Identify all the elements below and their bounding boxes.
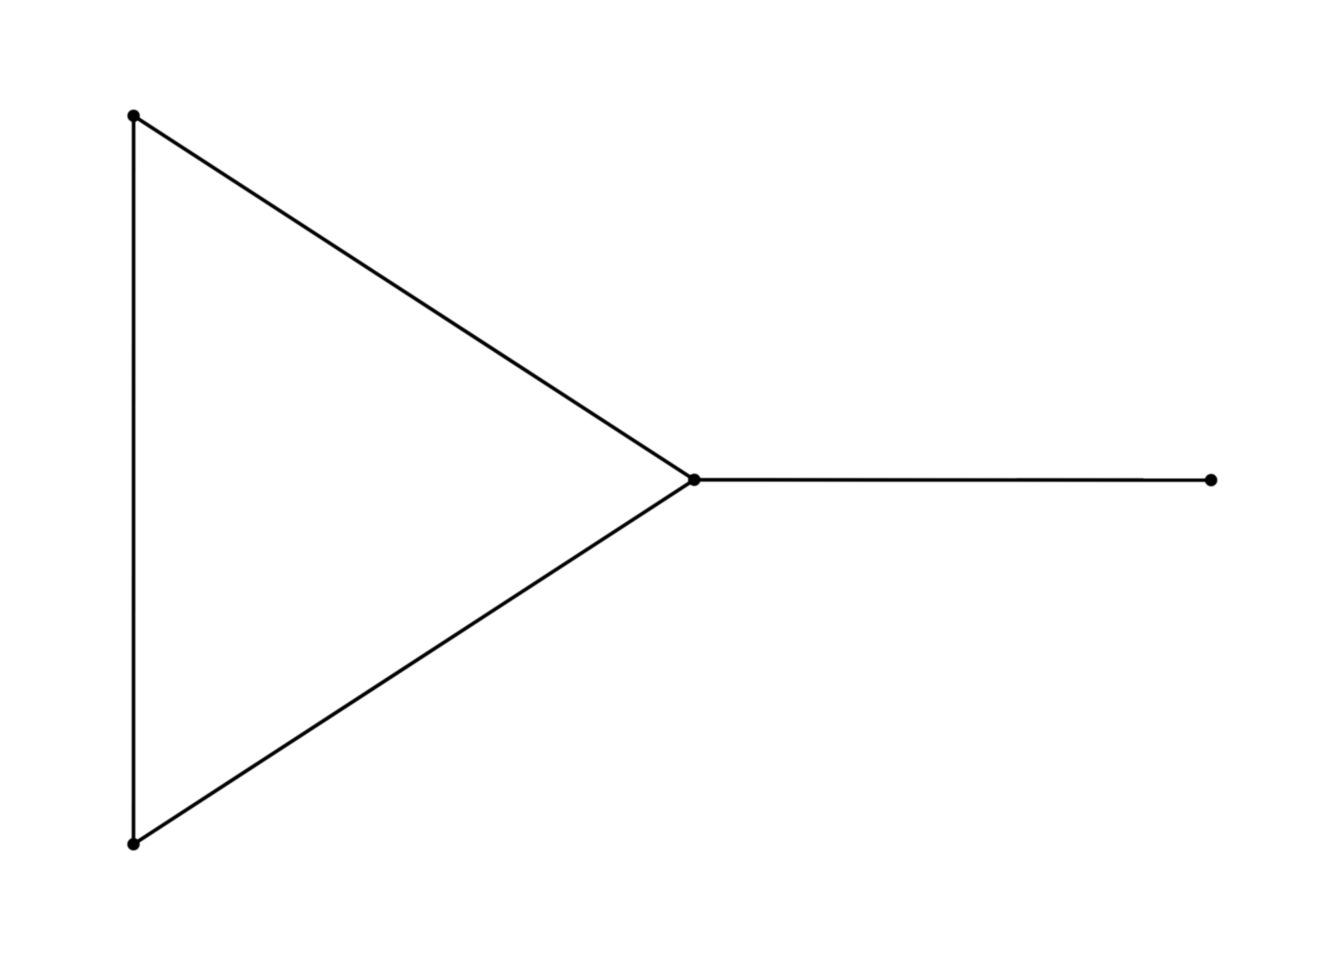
wire edge A-C (upper diagonal side of triangle) [134, 116, 695, 480]
wire edge C-D (horizontal tail) [694, 478, 1211, 482]
node D (right endpoint vertex) [1205, 474, 1217, 486]
wire edge A-B (left vertical side of triangle) [132, 116, 136, 844]
node C (middle junction vertex) [688, 474, 700, 486]
node B (bottom-left vertex) [127, 838, 139, 850]
node A (top-left vertex) [127, 110, 139, 122]
wire edge B-C (lower diagonal side of triangle) [134, 480, 695, 844]
